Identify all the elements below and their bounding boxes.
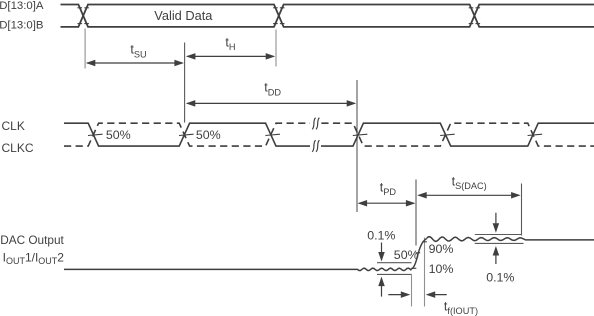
- svg-text:D[13:0]B: D[13:0]B: [0, 20, 44, 32]
- svg-text:0.1%: 0.1%: [486, 270, 514, 284]
- svg-text:50%: 50%: [394, 248, 419, 262]
- svg-text:50%: 50%: [196, 128, 221, 142]
- svg-text:90%: 90%: [429, 242, 454, 256]
- svg-text:Valid Data: Valid Data: [154, 8, 213, 23]
- svg-text:0.1%: 0.1%: [367, 229, 395, 243]
- svg-text:CLK: CLK: [2, 119, 25, 133]
- svg-text:DAC Output: DAC Output: [0, 233, 64, 247]
- svg-text:D[13:0]A: D[13:0]A: [0, 0, 44, 12]
- svg-text:10%: 10%: [429, 262, 454, 276]
- svg-text:CLKC: CLKC: [2, 141, 34, 155]
- svg-text:50%: 50%: [106, 128, 131, 142]
